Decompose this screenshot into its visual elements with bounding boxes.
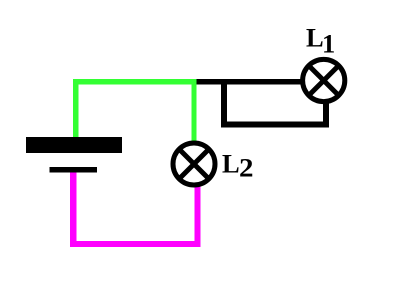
svg-text:2: 2	[239, 153, 254, 183]
label L1	[306, 22, 335, 58]
lamp L2	[173, 143, 215, 185]
lamp L1	[303, 59, 345, 101]
wire: green top horizontal rail	[73, 79, 197, 85]
wire: black vertical up to lamp L1 bottom	[323, 100, 329, 128]
wire: magenta vertical from lamp L2 bottom	[195, 185, 201, 247]
wire: green vertical down to lamp L2	[192, 79, 197, 143]
wire: green vertical from battery plus to top rail	[73, 79, 79, 139]
wire: magenta bottom horizontal	[70, 241, 201, 247]
wire: black top rail from node to lamp L1	[197, 79, 303, 85]
battery B1 negative plate	[50, 167, 98, 173]
wire: black branch vertical (short-circuit left leg)	[221, 84, 227, 128]
battery B1 positive plate	[26, 137, 122, 153]
wire: magenta vertical up to battery minus	[70, 173, 77, 248]
svg-text:1: 1	[322, 29, 335, 59]
wire: black bottom horizontal (short-circuit)	[221, 122, 329, 128]
svg-text:L: L	[222, 149, 240, 179]
label L2	[222, 149, 254, 183]
